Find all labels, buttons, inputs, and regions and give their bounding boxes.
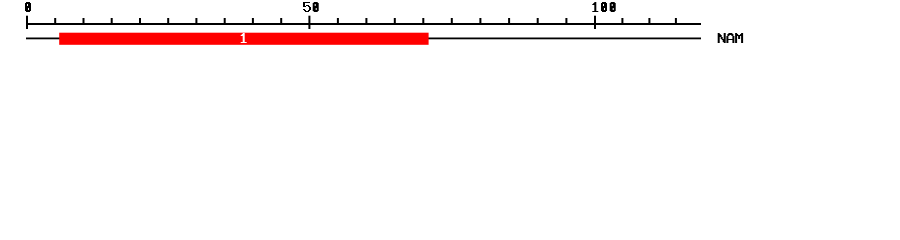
major tick 0	[26, 16, 28, 29]
domain label 1 (white)	[241, 33, 247, 43]
label 100	[592, 2, 615, 12]
label 0	[25, 2, 31, 12]
ruler axis line	[26, 23, 701, 25]
major tick 100	[594, 16, 596, 29]
minor ticks	[54, 18, 677, 25]
major tick 50	[308, 16, 310, 29]
red domain bar	[59, 33, 428, 45]
label 50	[303, 2, 319, 12]
sequence line row 2	[26, 38, 701, 40]
label NAM	[718, 33, 743, 43]
